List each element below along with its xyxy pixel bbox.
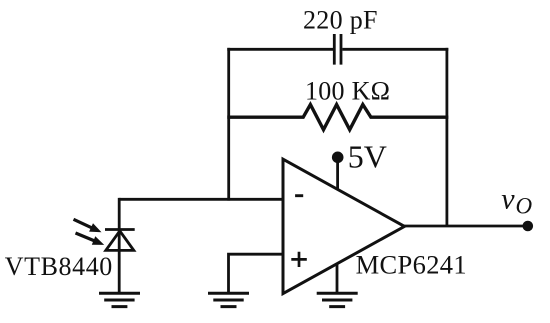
svg-text:MCP6241: MCP6241 xyxy=(356,250,467,280)
svg-text:220 pF: 220 pF xyxy=(303,5,378,34)
svg-text:5V: 5V xyxy=(348,139,387,175)
node vO output dot xyxy=(523,221,534,232)
5V supply dot xyxy=(332,152,344,164)
wire: feedback right vertical xyxy=(445,48,448,226)
ground (non-inverting input) xyxy=(208,293,249,306)
op-amp minus input symbol xyxy=(295,194,303,197)
svg-text:v: v xyxy=(501,182,515,215)
svg-text:VTB8440: VTB8440 xyxy=(5,252,113,281)
ground (photodiode) xyxy=(99,293,140,306)
label 220 pF xyxy=(303,5,378,34)
wire: inverting input xyxy=(119,198,283,201)
wire: output xyxy=(404,225,528,228)
label 5V xyxy=(348,139,387,175)
label MCP6241 xyxy=(356,250,467,280)
photodiode D1 triangle xyxy=(106,231,134,251)
op-amp plus input symbol xyxy=(291,252,307,267)
wire: non-inverting input to ground xyxy=(229,254,284,293)
label VTB8440 xyxy=(5,252,113,281)
label 100 KOhm xyxy=(305,76,390,105)
photodiode D1 cathode bar xyxy=(105,228,135,231)
wire: photodiode branch vertical xyxy=(118,198,121,293)
op-amp U1 triangle xyxy=(283,159,405,293)
wire: op-amp ground stem xyxy=(336,263,339,293)
photodiode light arrow 1 xyxy=(74,219,102,232)
resistor R1 100 KOhm xyxy=(227,105,448,130)
svg-text:O: O xyxy=(516,194,533,219)
wire: feedback top (capacitor branch) xyxy=(227,48,448,51)
capacitor C1 220 pF plates xyxy=(334,34,341,65)
ground (op-amp) xyxy=(317,293,358,306)
photodiode light arrow 2 xyxy=(76,233,105,245)
label vO xyxy=(501,182,532,218)
wire: feedback left vertical xyxy=(227,48,230,201)
svg-text:100 KΩ: 100 KΩ xyxy=(305,76,390,105)
5V supply stem xyxy=(336,157,339,190)
